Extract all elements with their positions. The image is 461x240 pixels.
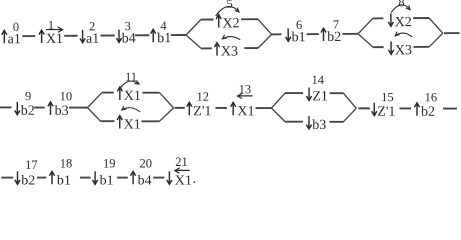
svg-text:6: 6	[296, 18, 302, 32]
wire after pause	[80, 177, 91, 179]
signal arrow up, step 18	[49, 171, 54, 184]
svg-text:X2: X2	[395, 15, 412, 30]
wire continuing off right edge	[444, 32, 459, 34]
svg-text:Z1: Z1	[312, 89, 328, 104]
fork diagonal up	[186, 20, 201, 35]
svg-text:10: 10	[60, 89, 73, 103]
bottom branch wire	[330, 121, 344, 123]
merge diagonal down	[159, 93, 173, 108]
merge diagonal up	[258, 34, 272, 48]
wire	[37, 177, 46, 179]
signal arrow up, step 5	[216, 15, 221, 28]
bottom branch wire	[244, 47, 258, 49]
svg-text:20: 20	[140, 157, 153, 171]
signal arrow down, step 15	[372, 103, 377, 116]
svg-text:b2: b2	[21, 104, 35, 119]
wire	[306, 33, 318, 35]
wire	[34, 106, 44, 108]
merge diagonal down	[258, 19, 272, 34]
svg-text:5: 5	[226, 0, 232, 11]
svg-text:X2: X2	[222, 16, 239, 31]
svg-text:Z'1: Z'1	[377, 105, 395, 120]
signal arrow down, step 2	[80, 30, 85, 43]
wire continuing from row 1	[0, 106, 11, 108]
curved arrow to X1	[122, 108, 140, 112]
svg-text:b2: b2	[21, 173, 35, 188]
svg-text:X1: X1	[237, 104, 254, 119]
signal arrow up, step 12	[187, 102, 192, 115]
fork diagonal down	[271, 108, 285, 122]
merge diagonal down	[429, 18, 443, 33]
fork diagonal down	[186, 35, 201, 49]
top branch wire	[102, 92, 114, 94]
svg-text:3: 3	[125, 19, 131, 33]
signal arrow up, step 1	[39, 30, 44, 43]
svg-text:b2: b2	[327, 30, 341, 45]
bottom branch wire	[100, 120, 114, 122]
svg-text:X1: X1	[124, 118, 141, 133]
top branch wire	[241, 18, 258, 20]
svg-text:b4: b4	[138, 173, 152, 188]
svg-text:2: 2	[89, 19, 95, 33]
row 3: cycle steps 17-21	[1, 155, 196, 188]
wire out of merge	[174, 107, 184, 109]
svg-text:X1: X1	[46, 32, 63, 47]
right arrow over X1 (step 1)	[46, 27, 63, 33]
signal arrow down (b3 branch)	[306, 116, 311, 129]
merge diagonal down	[343, 93, 356, 108]
merge diagonal up	[429, 33, 443, 47]
signal arrow up, step 13	[231, 102, 236, 115]
curved arrow to X3	[395, 33, 412, 37]
wire	[135, 34, 149, 36]
wire continuing from row 2	[1, 177, 13, 179]
svg-text:12: 12	[196, 90, 209, 104]
svg-text:a1: a1	[8, 32, 21, 47]
signal arrow up (X3 branch)	[214, 43, 219, 56]
signal arrow up, step 16	[414, 103, 419, 116]
top branch wire	[142, 92, 159, 94]
signal arrow down (X3 branch)	[388, 41, 393, 54]
fork diagonal up	[271, 93, 285, 108]
fork diagonal down	[358, 34, 373, 48]
wire	[215, 107, 226, 109]
signal arrow down, step 21	[167, 171, 172, 184]
left arrow over X1 (step 13)	[238, 93, 253, 98]
svg-text:21: 21	[175, 155, 188, 169]
merge diagonal up	[159, 108, 173, 122]
svg-text:0: 0	[13, 20, 19, 34]
svg-text:18: 18	[60, 157, 73, 171]
svg-text:16: 16	[425, 90, 438, 104]
svg-text:b1: b1	[100, 173, 114, 188]
svg-text:9: 9	[25, 89, 31, 103]
svg-text:Z'1: Z'1	[193, 104, 211, 119]
svg-text:X3: X3	[395, 43, 412, 58]
fork diagonal down	[87, 108, 100, 122]
svg-text:17: 17	[25, 158, 38, 172]
svg-text:b1: b1	[57, 173, 71, 188]
svg-text:19: 19	[103, 157, 116, 171]
bottom branch wire	[413, 46, 429, 48]
signal arrow up, step 11	[117, 87, 122, 100]
svg-text:4: 4	[160, 19, 167, 33]
bottom branch wire	[201, 47, 212, 49]
fork diagonal up	[87, 93, 102, 108]
signal arrow down, step 6	[286, 28, 291, 41]
wire into fork	[171, 34, 186, 36]
svg-text:X1: X1	[124, 89, 141, 104]
signal arrow up, step 0	[2, 30, 7, 43]
bottom branch wire	[285, 121, 303, 123]
svg-text:b3: b3	[312, 118, 326, 133]
wire continuing to row 3	[443, 108, 457, 110]
svg-text:.: .	[193, 172, 197, 187]
svg-text:a1: a1	[86, 32, 99, 47]
signal arrow up, step 4	[151, 29, 156, 42]
top branch wire	[201, 19, 214, 21]
signal arrow down, step 8	[388, 13, 393, 26]
signal arrow up, step 20	[131, 171, 136, 184]
wire	[22, 35, 35, 37]
top branch wire	[285, 92, 303, 94]
wire	[117, 177, 128, 179]
top branch wire	[373, 17, 383, 19]
svg-text:15: 15	[381, 90, 394, 104]
curved arrow from X1 (step 11)	[120, 81, 139, 89]
signal arrow down, step 3	[116, 30, 121, 43]
signal arrow down, step 17	[15, 171, 20, 184]
row 2: cycle steps 9-16	[0, 70, 457, 134]
svg-text:14: 14	[312, 73, 325, 87]
svg-text:b4: b4	[122, 31, 136, 46]
signal arrow down, step 9	[15, 102, 20, 115]
wire	[399, 107, 411, 109]
wire out of merge	[272, 33, 282, 35]
wire	[100, 34, 114, 36]
curved arrow from X2 (step 8)	[391, 5, 410, 13]
top branch wire	[413, 17, 429, 19]
signal arrow up (X1 branch)	[117, 116, 122, 129]
bottom branch wire	[373, 46, 383, 48]
svg-text:X1: X1	[175, 173, 192, 188]
top branch wire	[330, 92, 344, 94]
svg-text:b1: b1	[157, 31, 171, 46]
wire	[64, 35, 77, 37]
wire into fork	[255, 107, 271, 109]
wire into fork	[342, 33, 357, 35]
signal arrow down, step 19	[93, 171, 98, 184]
fork diagonal up	[358, 18, 373, 33]
merge diagonal up	[343, 108, 356, 122]
left arrow over X1 (step 21)	[175, 168, 190, 173]
cyclogram of the working cycle: steps 0-21	[0, 0, 461, 189]
wire out of merge	[358, 107, 370, 109]
signal arrow down, step 14	[306, 88, 311, 101]
bottom branch wire	[141, 120, 159, 122]
wire into fork	[69, 107, 87, 109]
signal arrow up, step 10	[48, 102, 53, 115]
curved arrow from X2 (step 5)	[216, 6, 239, 16]
svg-text:X3: X3	[221, 44, 238, 59]
wire	[153, 177, 164, 179]
curved arrow to X3	[222, 36, 240, 39]
row 1: cycle steps 0-8	[1, 0, 459, 61]
svg-text:b1: b1	[292, 30, 306, 45]
svg-text:b3: b3	[55, 104, 69, 119]
signal arrow up, step 7	[321, 28, 326, 41]
svg-text:7: 7	[333, 18, 339, 32]
svg-text:b2: b2	[421, 105, 435, 120]
